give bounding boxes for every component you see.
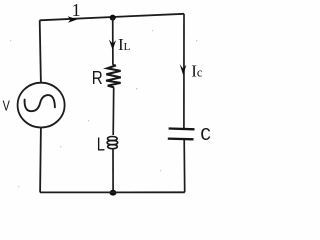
wire top (from top-left corner to top-right corner) (40, 14, 184, 20)
wire middle branch upper (113, 18, 116, 66)
svg-text:V: V (3, 97, 10, 114)
wire between R and L (112, 87, 115, 135)
source V (AC) (18, 83, 65, 128)
svg-text:C: C (200, 126, 211, 146)
wire middle branch lower (112, 149, 114, 193)
svg-text:R: R (92, 68, 103, 89)
wire right upper (top corner to capacitor) (183, 14, 185, 128)
resistor R (106, 65, 121, 87)
wire left lower (source to bottom corner) (39, 128, 42, 193)
arrowhead current I on top wire (68, 16, 78, 23)
sine wave inside source (25, 95, 55, 111)
wire left upper (top corner to source) (40, 20, 41, 82)
node bottom junction (110, 190, 117, 196)
capacitor C bottom plate (168, 137, 194, 140)
inductor L (coil) (107, 137, 118, 149)
arrowhead current Ic (180, 64, 187, 75)
arrowhead current IL (109, 40, 116, 51)
wire right lower (capacitor to bottom corner) (183, 140, 186, 193)
wire bottom (40, 191, 185, 193)
node top junction (110, 15, 116, 21)
capacitor C top plate (169, 127, 195, 130)
svg-text:1: 1 (72, 0, 81, 20)
scan speckles (decorative) (10, 30, 197, 187)
svg-text:L: L (97, 134, 105, 155)
